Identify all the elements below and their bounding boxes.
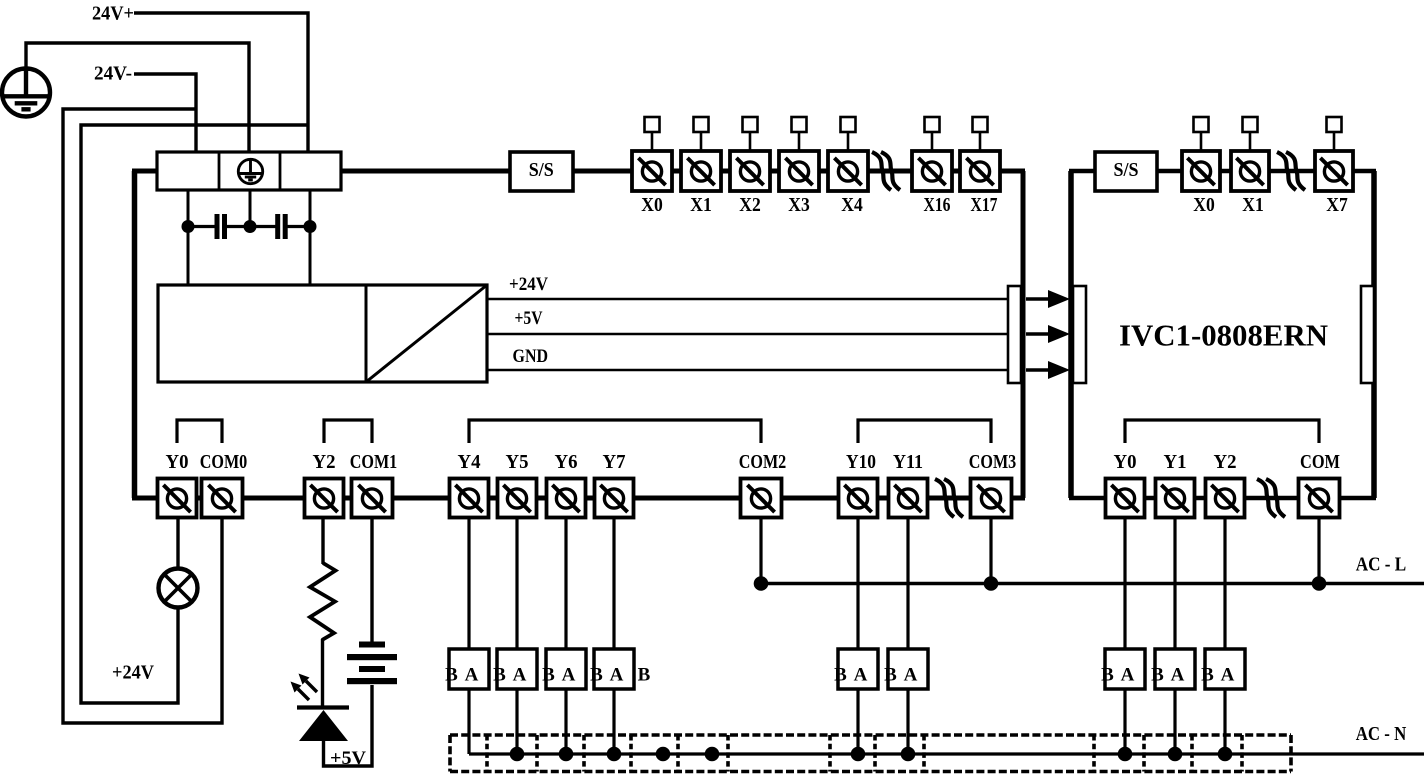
svg-text:GND: GND [513,346,549,367]
svg-text:B: B [1201,665,1214,686]
terminal Y7 [595,479,634,518]
svg-text:Y2: Y2 [313,452,336,473]
wire expansion COM to AC-L [1317,517,1320,583]
power terminal block [157,152,341,190]
wire Y6 load to AC-N [564,689,567,754]
input contact X2 [743,117,758,153]
wire COM0 return to 24V- [63,109,222,723]
svg-text:B: B [884,665,897,686]
junction x566 on AC-N [559,747,574,762]
svg-text:Y6: Y6 [555,452,578,473]
terminal X17 [960,151,1000,191]
wire COM3 to AC-L [989,517,992,583]
expansion terminal X1 [1231,151,1269,191]
svg-text:A: A [904,665,918,686]
expansion input contact X0 [1194,117,1209,153]
svg-text:B: B [1151,665,1164,686]
load box B-A Y5 [493,649,537,689]
load box B-A exp Y2 [1201,649,1245,689]
svg-text:+24V: +24V [112,663,154,684]
svg-text:A: A [513,665,527,686]
expansion terminal Y2 [1206,479,1245,518]
terminal X16 [912,151,952,191]
expansion module bottom edge wires [1069,496,1376,501]
wire exp Y1 to load [1173,517,1176,649]
svg-text:+5V: +5V [515,308,543,329]
svg-text:A: A [610,665,624,686]
LED D1 [297,708,349,742]
expansion terminal Y1 [1156,479,1195,518]
svg-text:COM: COM [1300,452,1340,473]
svg-text:B: B [590,665,603,686]
wire Y11 to load [906,517,909,649]
svg-text:COM2: COM2 [739,452,787,473]
wire Y6 to load [564,517,567,649]
expansion terminal COM [1299,479,1340,518]
svg-text:Y7: Y7 [603,452,626,473]
svg-text:AC - N: AC - N [1356,724,1407,745]
svg-text:24V+: 24V+ [92,4,134,25]
protective earth electrode [2,69,50,117]
expansion output group bracket [1125,420,1319,443]
wire AC-N line [469,752,1424,755]
expansion terminal X7 [1315,151,1353,191]
svg-text:X1: X1 [690,195,712,216]
dashed strip divider x1192 [1190,735,1194,772]
expansion input contact X7 [1327,117,1342,153]
junction x517 on AC-N [510,747,525,762]
wire Y4 load to AC-N corner [467,689,470,754]
svg-text:X4: X4 [841,195,863,216]
LED emission arrows [291,674,318,701]
bus arrow y370 [1026,368,1050,372]
svg-text:A: A [562,665,576,686]
bus arrow y334 [1026,332,1050,336]
svg-text:COM0: COM0 [200,452,248,473]
input contact X4 [841,117,856,153]
break squiggle Y11..COM3 [935,479,963,517]
capacitor C1 [188,225,215,228]
svg-text:X17: X17 [971,195,998,216]
wire Y11 load to AC-N [906,689,909,754]
resistor R1 [310,563,336,640]
svg-text:X0: X0 [1193,195,1215,216]
svg-text:COM1: COM1 [350,452,398,473]
terminal Y10 [839,479,878,518]
break squiggle Y2..COM expansion [1257,479,1285,517]
junction COM on AC-L [1312,576,1327,591]
wire exp Y0 to load [1123,517,1126,649]
dashed strip divider x1242 [1240,735,1244,772]
S/S terminal expansion module [1095,152,1157,191]
dashed strip divider x537 [535,735,539,772]
dashed strip divider x584 [582,735,586,772]
junction node left [182,220,195,233]
junction x1125 on AC-N [1118,747,1133,762]
output group bracket 324-372 [324,420,372,443]
svg-text:X2: X2 [739,195,761,216]
load box B-A exp Y0 [1101,649,1145,689]
svg-text:Y10: Y10 [846,452,876,473]
expansion module left border [1068,171,1074,498]
wire Y5 to load [515,517,518,649]
svg-text:B: B [638,665,651,686]
power supply unit box [158,285,487,382]
svg-text:X0: X0 [641,195,663,216]
terminal COM2 [741,479,782,518]
wire exp Y0 load to AC-N [1123,689,1126,754]
wire exp Y2 to load [1223,517,1226,649]
wire cap left to PSU [187,227,190,285]
svg-text:A: A [465,665,479,686]
svg-text:B: B [445,665,458,686]
input contact X0 [645,117,660,153]
lamp L1 [159,569,198,608]
output group bracket 177-222 [177,420,222,443]
load box B-A Y11 [884,649,928,689]
main module bottom edge wires [132,496,1025,501]
terminal Y5 [498,479,537,518]
capacitor C2 [250,225,276,228]
svg-text:S/S: S/S [1114,160,1139,181]
main module outline right border [1021,171,1026,498]
svg-text:+5V: +5V [330,748,366,769]
svg-text:A: A [854,665,868,686]
dashed strip divider x1094 [1092,735,1096,772]
terminal Y0 [158,479,197,518]
wire Y4 to load [467,517,470,649]
wire block left to cap node [187,190,190,227]
terminal Y4 [450,479,489,518]
load box B-A Y4 [445,649,489,689]
wire Y7 to load [612,517,615,649]
dashed strip divider x875 [873,735,877,772]
terminal X4 [828,151,868,191]
wire resistor to LED [321,639,324,707]
svg-text:A: A [1221,665,1235,686]
terminal X3 [779,151,819,191]
svg-text:A: A [1121,665,1135,686]
input contact X17 [973,117,988,153]
junction node mid [244,220,257,233]
svg-text:S/S: S/S [529,160,554,181]
wire block right to cap node [309,190,312,227]
bus connector expansion right [1361,286,1374,383]
expansion terminal Y0 [1106,479,1145,518]
bus arrow y299 [1026,297,1050,301]
svg-text:X1: X1 [1242,195,1264,216]
wire +24V rail [487,298,1010,301]
wire 24V+ feed [134,13,308,152]
junction COM3 on AC-L [984,576,999,591]
svg-text:X3: X3 [788,195,810,216]
svg-text:Y0: Y0 [1114,452,1137,473]
terminal Y11 [889,479,928,518]
expansion terminal X0 [1182,151,1220,191]
terminal X2 [730,151,770,191]
terminal Y2 [305,479,344,518]
svg-text:B: B [1101,665,1114,686]
break squiggle X1..X7 expansion [1277,152,1305,190]
input contact X3 [792,117,807,153]
wire Y10 to load [856,517,859,649]
wire block mid to cap node [249,190,252,227]
svg-text:+24V: +24V [509,274,548,295]
svg-text:A: A [1171,665,1185,686]
svg-text:Y2: Y2 [1214,452,1237,473]
svg-text:X16: X16 [924,195,951,216]
wire AC-L line [761,582,1424,586]
output group bracket 858-991 [858,420,991,443]
wire COM2 to AC-L [759,517,762,583]
expansion module right border [1371,171,1377,498]
expansion module top edge wires [1069,169,1376,174]
junction x908 on AC-N [901,747,916,762]
load box B-A Y10 [834,649,878,689]
input contact X1 [694,117,709,153]
load box B-A Y7 [590,649,634,689]
svg-text:B: B [493,665,506,686]
svg-text:Y11: Y11 [893,452,923,473]
main module top edge wires [132,169,1025,174]
svg-text:B: B [542,665,555,686]
wire exp Y2 load to AC-N [1223,689,1226,754]
junction x858 on AC-N [851,747,866,762]
wire exp Y1 load to AC-N [1173,689,1176,754]
svg-text:Y1: Y1 [1164,452,1187,473]
svg-text:Y5: Y5 [506,452,529,473]
dashed strip divider x1144 [1142,735,1146,772]
break squiggle X4..X16 [872,152,900,190]
terminal Y6 [547,479,586,518]
load box B-A Y6 [542,649,586,689]
wire COM1 to battery [370,517,373,642]
svg-text:IVC1-0808ERN: IVC1-0808ERN [1119,318,1328,353]
wire Y5 load to AC-N [515,689,518,754]
svg-text:24V-: 24V- [94,64,132,85]
dashed terminal strip outline [450,735,1291,772]
dashed strip divider x678 [676,735,680,772]
svg-text:Y4: Y4 [458,452,481,473]
terminal COM0 [202,479,243,518]
wire LED to battery bottom [324,685,373,766]
junction x614 on AC-N [607,747,622,762]
junction x1225 on AC-N [1218,747,1233,762]
earth terminal symbol in block [238,159,262,183]
main module outline left border [132,171,138,498]
S/S terminal main module [510,152,573,191]
wire +5V rail [487,333,1010,336]
bus connector main module [1008,286,1021,383]
terminal X0 [632,151,672,191]
junction node right [304,220,317,233]
dashed strip divider x924 [922,735,926,772]
junction x712 on AC-N [705,747,720,762]
wire lamp return to 24V+ [81,125,308,703]
dashed strip divider x487 [485,735,489,772]
terminal COM1 [352,479,393,518]
load box B-A exp Y1 [1151,649,1195,689]
battery BT1 [347,642,397,685]
expansion input contact X1 [1243,117,1258,153]
svg-text:X7: X7 [1326,195,1348,216]
output group bracket 469-761 [469,420,761,443]
svg-text:Y0: Y0 [166,452,189,473]
wire Y2 to resistor [321,517,324,564]
svg-text:COM3: COM3 [969,452,1017,473]
junction x663 on AC-N [656,747,671,762]
wire 24V- feed [134,74,196,152]
dashed strip divider x631 [629,735,633,772]
wire GND rail [487,369,1010,372]
terminal X1 [681,151,721,191]
wire Y0 to lamp [176,517,179,569]
wire Y7 load to AC-N [612,689,615,754]
junction COM2 on AC-L [754,576,769,591]
svg-text:B: B [834,665,847,686]
wire earth to terminal block [26,43,249,152]
dashed strip divider x830 [828,735,832,772]
terminal COM3 [971,479,1012,518]
wire Y10 load to AC-N [856,689,859,754]
wire cap right to PSU [309,227,312,285]
input contact X16 [925,117,940,153]
bus connector expansion left [1073,286,1086,383]
svg-text:AC - L: AC - L [1356,555,1407,576]
dashed strip divider x728 [726,735,730,772]
junction x1175 on AC-N [1168,747,1183,762]
